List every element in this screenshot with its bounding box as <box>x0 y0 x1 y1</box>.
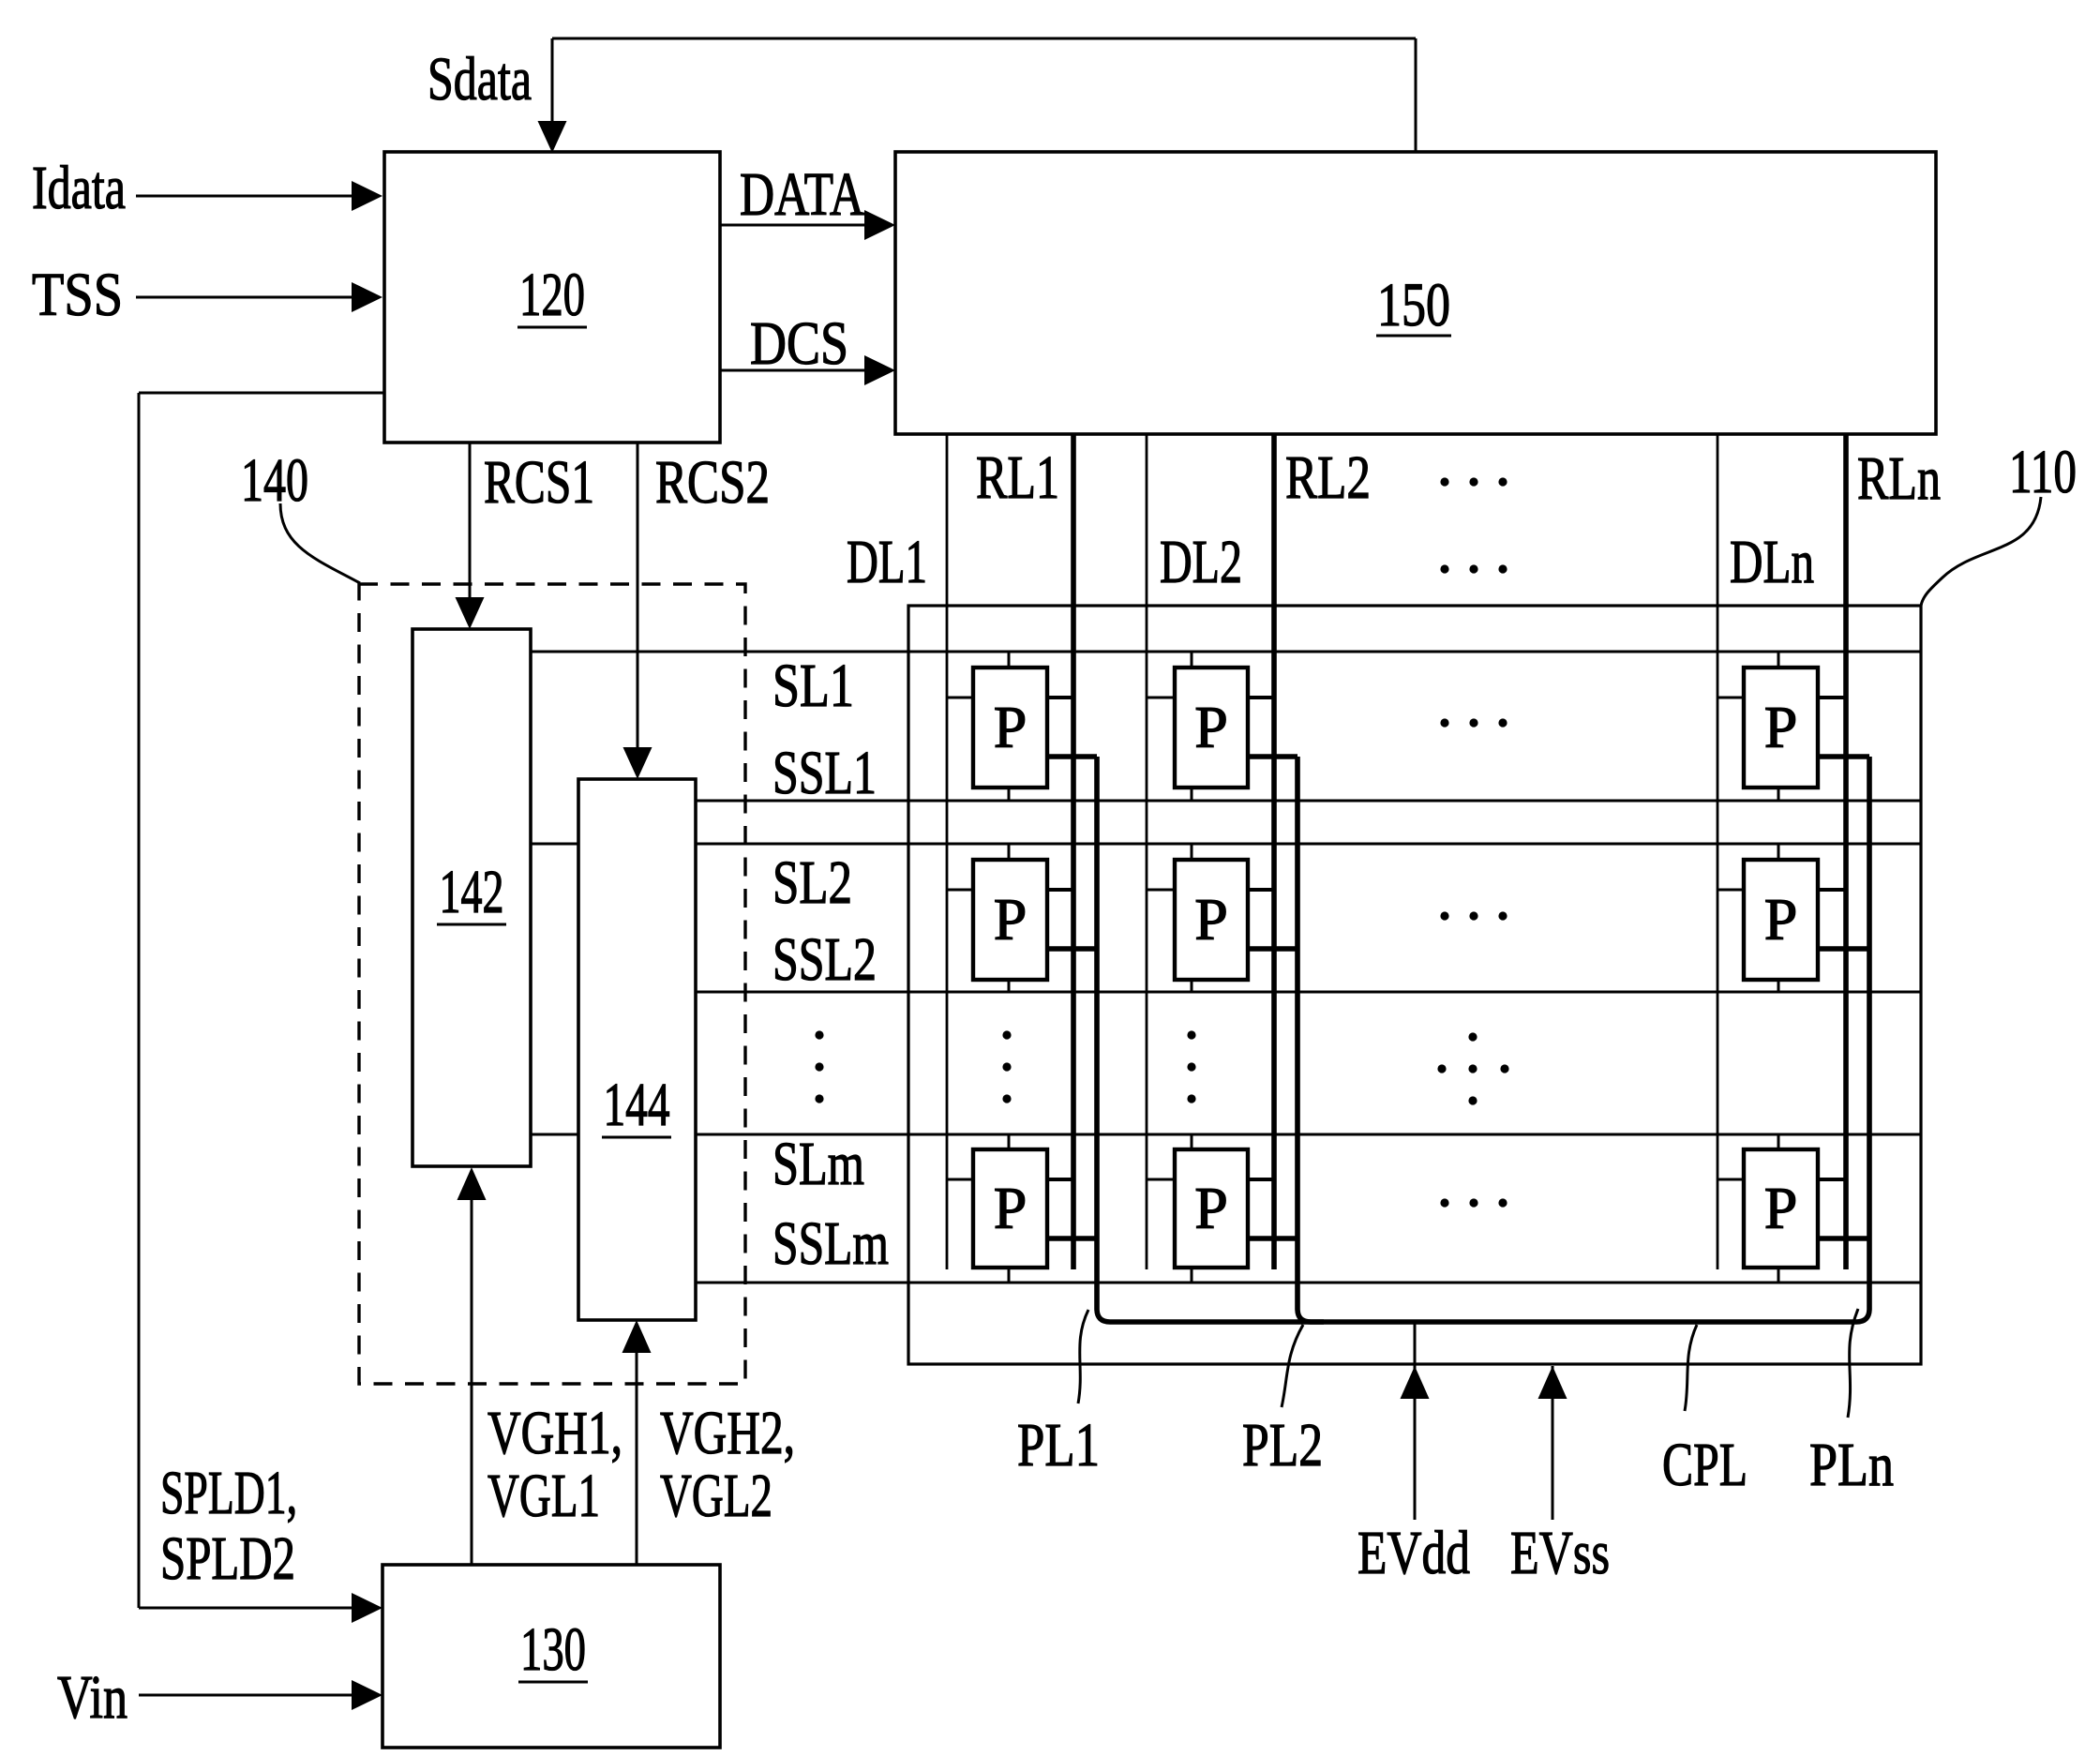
svg-text:SPLD2: SPLD2 <box>160 1524 295 1593</box>
svg-text:SSL1: SSL1 <box>772 739 877 807</box>
svg-text:PL2: PL2 <box>1242 1411 1323 1479</box>
svg-text:P: P <box>1194 1175 1228 1241</box>
svg-text:RLn: RLn <box>1857 444 1941 513</box>
svg-text:EVdd: EVdd <box>1357 1519 1470 1587</box>
svg-text:DATA: DATA <box>740 160 864 229</box>
svg-text:PLn: PLn <box>1809 1431 1894 1499</box>
svg-text:VGL2: VGL2 <box>660 1462 772 1530</box>
svg-text:P: P <box>1194 886 1228 953</box>
svg-text:150: 150 <box>1377 271 1450 339</box>
svg-text:P: P <box>994 694 1027 760</box>
svg-text:Sdata: Sdata <box>427 45 532 113</box>
svg-text:VGL1: VGL1 <box>487 1462 600 1530</box>
svg-text:142: 142 <box>440 858 504 926</box>
svg-text:RL1: RL1 <box>976 443 1059 512</box>
svg-text:140: 140 <box>241 446 308 515</box>
svg-text:VGH1,: VGH1, <box>487 1399 622 1467</box>
svg-text:DCS: DCS <box>750 309 848 378</box>
svg-text:PL1: PL1 <box>1017 1411 1100 1479</box>
svg-text:DL1: DL1 <box>847 528 927 596</box>
svg-text:SLm: SLm <box>772 1130 864 1198</box>
svg-text:144: 144 <box>604 1071 670 1139</box>
svg-text:P: P <box>1764 1175 1798 1241</box>
svg-text:120: 120 <box>519 261 585 329</box>
svg-text:SL2: SL2 <box>772 848 852 917</box>
svg-text:SL1: SL1 <box>772 652 854 720</box>
svg-text:SPLD1,: SPLD1, <box>160 1459 297 1527</box>
svg-text:RL2: RL2 <box>1285 443 1371 512</box>
svg-text:P: P <box>1764 694 1798 760</box>
svg-text:RCS2: RCS2 <box>655 448 770 517</box>
svg-text:130: 130 <box>520 1615 586 1684</box>
svg-text:RCS1: RCS1 <box>484 448 594 517</box>
svg-text:DL2: DL2 <box>1160 528 1242 596</box>
svg-text:EVss: EVss <box>1510 1519 1610 1587</box>
svg-text:CPL: CPL <box>1662 1431 1747 1499</box>
svg-text:P: P <box>994 886 1027 953</box>
svg-text:Idata: Idata <box>32 154 126 222</box>
svg-text:SSLm: SSLm <box>772 1209 889 1278</box>
svg-text:110: 110 <box>2009 438 2077 506</box>
svg-text:P: P <box>1194 694 1228 760</box>
svg-text:TSS: TSS <box>32 261 123 329</box>
svg-text:VGH2,: VGH2, <box>660 1399 795 1467</box>
svg-text:DLn: DLn <box>1730 528 1814 596</box>
svg-text:P: P <box>1764 886 1798 953</box>
svg-text:P: P <box>994 1175 1027 1241</box>
svg-text:Vin: Vin <box>57 1663 127 1732</box>
svg-text:SSL2: SSL2 <box>772 925 877 994</box>
